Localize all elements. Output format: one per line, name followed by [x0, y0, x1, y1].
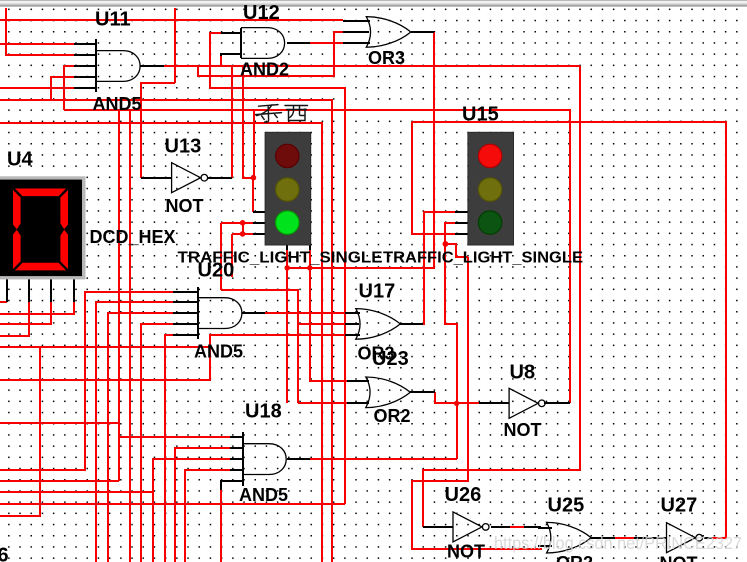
pin bar U20 AND5 — [197, 287, 199, 339]
wire vertical x=130.2 from bus y=110.5 down to bottom — [129, 110, 131, 562]
pin U13 NOT input — [141, 177, 172, 179]
wire long bus net A at y=20.5 to OR3 input1 — [0, 19, 343, 21]
wire bus y=503.7 from left edge to x=344.7 — [0, 503, 345, 505]
wire U11 AND5 input1 from left edge — [0, 43, 74, 45]
wire U15 pin2 down via x=445.4 jog to x=456.6 — [445, 223, 457, 459]
segment b of U4 digit 0 — [60, 190, 68, 229]
svg-text:NOT: NOT — [660, 554, 698, 562]
wire U18 input3 from x=152.8 with drop to left edge y=492.4 — [0, 459, 243, 492]
wire bus y=110.5 from x=63.8 turning down at x=569.7 to U8 output — [64, 110, 570, 403]
junction dot common net B — [307, 265, 312, 270]
wire traffic light U16 bottom pin B down to U23 input1 — [310, 245, 347, 381]
wire U16 pin3 horizontal from x=232.4 — [232, 233, 253, 235]
wire U18 input4 from x=185.3 — [185, 470, 243, 562]
wire bus y=100.5 from left edge turning down at x=332.1 — [0, 100, 332, 562]
wire display pin3 drop to left edge at y=323.8 — [0, 302, 51, 324]
svg-text:OR2: OR2 — [374, 406, 411, 426]
segment d of U4 digit 0 — [15, 263, 66, 271]
pin bar U12 AND2 — [240, 28, 242, 58]
wire vertical x=175.2 from top to corner y=82.6 — [174, 8, 176, 83]
pin bar U18 AND5 — [242, 432, 244, 486]
pin U26 NOT output — [491, 526, 541, 528]
pin U8 NOT input — [479, 402, 509, 404]
wire display pin4 drop to left edge at y=313.9 — [0, 302, 74, 314]
wire U11 AND5 input5 from left edge — [0, 87, 74, 89]
svg-text:NOT: NOT — [166, 196, 204, 216]
pin U27 NOT input segment — [634, 537, 666, 539]
pin stubs U12 AND2 input1 — [221, 32, 241, 34]
wire U15 pin3 feed from bus y=121.8 — [412, 122, 455, 234]
window top border bar — [0, 0, 747, 7]
wire U16 pin2 horizontal from x=220.8 — [221, 222, 253, 224]
wire U11 AND5 input4 drop to bus at y=100.5 — [51, 77, 74, 100]
wire U20 AND5 input3 from vertical x=108 — [108, 313, 173, 562]
wire vertical x=220.8 from U16 pin2 down to U17 input2 loop — [220, 223, 222, 290]
pin U25 output — [591, 537, 615, 539]
pin U18 output — [287, 458, 310, 460]
pin stubs U18 AND5 inputs — [230, 436, 243, 438]
svg-text:AND5: AND5 — [239, 485, 288, 505]
segment a of U4 digit 0 — [15, 189, 66, 197]
svg-text:NOT: NOT — [447, 542, 485, 562]
pin U23 output — [410, 391, 435, 393]
wire vertical x=152.8 below y=492.4 — [152, 492, 154, 562]
wire jog from U15 pin2 junction dot to loop x=467.9 — [445, 244, 468, 257]
junction dot U8 input net — [454, 401, 459, 406]
pin U8 NOT output — [544, 402, 570, 404]
wire vertical x=220.8 below U18 input5 bend — [220, 490, 222, 562]
svg-text:https://blog.csdn.net/PRINCE23: https://blog.csdn.net/PRINCE2327 — [494, 533, 742, 553]
pin U17 output — [400, 323, 423, 325]
wire U12 AND2 input2 short drop to bus y=66 — [220, 56, 222, 66]
svg-text:U13: U13 — [165, 136, 202, 158]
not-gate U26 — [453, 512, 482, 542]
svg-text:U23: U23 — [372, 348, 409, 370]
svg-text:TRAFFIC_LIGHT_SINGLE: TRAFFIC_LIGHT_SINGLE — [383, 250, 583, 267]
and-gate U18 AND5 — [243, 444, 287, 475]
wire U20 AND5 input5 from vertical x=164.7 — [165, 335, 173, 562]
junction dot U15 pin2 net — [443, 241, 449, 247]
and-gate U12 AND2 — [241, 28, 285, 59]
label east-west chinese text — [256, 105, 308, 123]
not-gate U13 — [172, 163, 201, 193]
svg-text:U26: U26 — [445, 484, 482, 506]
junction dot U16 pin3 — [240, 231, 246, 237]
wire stub from bus y=66 corner x=141.4 to x=175.2 at y=82.6 — [141, 83, 175, 110]
traffic light U16 east-west (green lit) — [265, 132, 311, 245]
wire U11 AND5 input2 via left vertical — [6, 8, 74, 55]
junction dot U16 pin2 — [240, 220, 246, 226]
svg-text:AND5: AND5 — [93, 94, 142, 114]
wire vertical x=232.4 below pin3 — [231, 234, 233, 277]
svg-text:U25: U25 — [548, 494, 585, 516]
svg-text:OR2: OR2 — [556, 553, 593, 562]
pin U20 output — [242, 312, 265, 314]
pins display U4 bottom — [6, 279, 8, 302]
or-gate U25 OR2 — [547, 522, 592, 553]
and-gate U20 AND5 — [198, 298, 242, 329]
svg-text:U17: U17 — [359, 281, 396, 303]
or-gate U23 OR2 — [366, 377, 411, 408]
pins traffic light U16 bottom — [286, 245, 288, 250]
wire vertical x=119 from bus y=110.5 down — [118, 110, 120, 481]
svg-text:AND2: AND2 — [240, 60, 289, 80]
wire display pin1 to left edge at y=302 — [0, 301, 7, 303]
wire display pin2 drop to left edge at y=336.2 — [0, 302, 29, 336]
pins traffic light U16 left — [253, 211, 265, 213]
segment f of U4 digit 0 — [13, 190, 21, 229]
segment e of U4 digit 0 — [13, 230, 21, 269]
pin stubs U23 OR2 inputs — [347, 380, 369, 382]
wire red overlap on U25 output — [615, 537, 634, 539]
wire U20 AND5 input2 from vertical x=96.4 — [96, 302, 173, 562]
wire bus y=122.8 from left edge turning down at x=321.5 — [0, 123, 322, 562]
wire bus y=481.1 from left edge to x=119 — [0, 480, 119, 482]
wire bus y=121.8 right section to U27 output via x=725.8 — [412, 122, 726, 538]
wire branch x=40.1 from bus y=346.8 down to y=516.2 — [0, 347, 40, 516]
pin stubs U25 OR2 inputs — [538, 527, 552, 529]
pin U26 NOT input — [423, 526, 453, 528]
or-gate OR3 top — [366, 17, 411, 48]
wire U18 input1 from x=119 — [119, 436, 243, 438]
wire U20 output to U17 input1 — [265, 312, 345, 314]
pin U27 NOT output — [704, 537, 712, 539]
wire U11 AND5 input3 drop to bus at y=110.5 — [64, 66, 74, 110]
wire U11 output long bus at y=66 across schematic — [164, 65, 580, 67]
svg-text:U8: U8 — [510, 362, 536, 384]
wire U20 AND5 input4 from vertical x=141.4 — [141, 324, 173, 562]
wire branch x=254.5 from bus y=110.5 down to junction at NOT output — [253, 110, 255, 178]
junction dot at U13 NOT output — [251, 175, 257, 181]
svg-text:U12: U12 — [243, 2, 280, 24]
wire U17 input2 branch at y=323.9 — [298, 323, 345, 325]
wire short vertical linking pin2 and pin3 junction dots — [242, 223, 244, 234]
wire U18 input2 from vertical x=175.2 — [175, 448, 243, 562]
wire U23 output down to U8 input — [435, 392, 479, 403]
pin bar U11 AND5 — [95, 39, 97, 92]
svg-text:6: 6 — [0, 545, 9, 562]
wire vertical x=232.1 from bus y=66 down to U13 output — [231, 66, 233, 178]
wire U12 AND2 input1 loop via y=87.6 down right of lights — [210, 33, 345, 504]
wire U17 input2 loop from vertical x=220.8 — [221, 290, 298, 403]
wire bus y=380 from left edge up at x=209.5 to U17 input3 — [0, 335, 345, 380]
wire U20 AND5 input1 from x=85.1 with drop to left edge y=469.8 — [0, 292, 173, 470]
wire U23 input2 from vertical x=298.4 — [298, 402, 347, 404]
not-gate U8 — [509, 388, 538, 418]
pin stub U12 AND2 input2 bend — [221, 54, 241, 56]
svg-text:U4: U4 — [7, 149, 33, 171]
wire branch x=141.4 from bus y=100.5 to U13 NOT input — [140, 100, 142, 178]
pin stubs OR3 inputs — [343, 20, 370, 22]
wire U12 AND2 output to OR3 input3 — [310, 42, 343, 44]
wire bus y=66 drop at x=579.7 down and left to U26 input — [423, 66, 580, 527]
svg-text:U20: U20 — [198, 260, 235, 282]
pin stub U18 input5 bend — [221, 481, 243, 490]
svg-text:U15: U15 — [462, 103, 499, 125]
or-gate U17 OR3 — [356, 309, 401, 340]
wire vertical x=242.8 from bus y=66 with jog to junction dot then down to U16 pin1 — [243, 66, 253, 212]
segment c of U4 digit 0 — [60, 230, 68, 269]
wire traffic light U16 bottom pin A down to U23 input2 level — [286, 245, 288, 403]
pin stubs U11 AND5 inputs — [74, 43, 96, 45]
junction dot common net A — [285, 265, 290, 270]
wire bus y=346.8 from left edge to x=209.5 — [0, 346, 210, 348]
wire U17 output up to U15 pin1 — [423, 212, 455, 324]
pin stubs U17 OR3 inputs — [345, 312, 360, 314]
pin stubs U20 AND5 inputs — [173, 291, 198, 293]
svg-text:NOT: NOT — [504, 420, 542, 440]
wire loop x=467.9 down to y=481.1 left and down to y=548.8 under U26 — [412, 257, 541, 549]
svg-text:DCD_HEX: DCD_HEX — [90, 227, 176, 247]
wire U18 output to vertical x=456.6 — [310, 458, 457, 460]
wire OR3 output down to y=267.8 and left to traffic light U16 common — [287, 32, 434, 268]
and-gate U11 AND5 — [97, 51, 141, 82]
seven-segment display U4 DCD_HEX body — [0, 176, 86, 279]
wire OR3 input2 via x=333.7 and y=75.6 — [198, 32, 343, 76]
svg-text:AND5: AND5 — [194, 341, 243, 361]
svg-text:U27: U27 — [661, 494, 698, 516]
svg-text:U18: U18 — [245, 400, 282, 422]
not-gate U27 — [667, 523, 696, 553]
pin OR3 output — [411, 31, 434, 33]
pin U13 NOT output — [208, 177, 232, 179]
wire bus y=423 from left edge to x=119 — [0, 422, 119, 424]
pin U11 AND5 output — [140, 65, 164, 67]
pin U12 AND2 output — [287, 42, 310, 44]
svg-text:U11: U11 — [95, 9, 131, 31]
traffic light U15 (red lit) — [468, 132, 514, 245]
pins traffic light U15 left — [455, 211, 468, 213]
wire red overlap on U26 output — [510, 526, 524, 528]
svg-text:OR3: OR3 — [368, 48, 405, 68]
